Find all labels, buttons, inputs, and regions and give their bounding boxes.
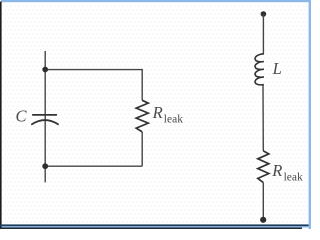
- svg-text:C: C: [16, 106, 28, 125]
- wire: left circuit, bottom horizontal: [45, 165, 142, 167]
- label R_leak (right): [271, 161, 303, 183]
- page frame: black left border: [0, 2, 2, 230]
- svg-text:leak: leak: [164, 113, 183, 125]
- wire: left circuit, right vertical lower segment: [141, 132, 143, 166]
- page frame: navy bottom rule: [0, 224, 309, 226]
- label R_leak (left): [152, 103, 184, 125]
- wire: left circuit, top horizontal: [45, 69, 142, 71]
- wire: left circuit, right vertical upper segment: [141, 69, 143, 101]
- node: top junction dot: [42, 67, 48, 73]
- page frame: blue top border: [1, 0, 311, 2]
- svg-text:R: R: [271, 161, 282, 180]
- node: right circuit bottom terminal: [260, 217, 266, 223]
- svg-text:L: L: [272, 59, 282, 78]
- wire: left circuit, left vertical lead: [44, 51, 46, 182]
- node: bottom junction dot: [42, 163, 48, 169]
- svg-text:leak: leak: [284, 171, 303, 183]
- wire: right circuit, middle segment: [262, 84, 264, 151]
- node: right circuit top terminal: [261, 11, 267, 17]
- wire: right circuit, upper lead: [262, 14, 264, 54]
- inductor L: [255, 54, 264, 85]
- svg-text:R: R: [152, 103, 163, 122]
- resistor R_leak (left): [136, 100, 148, 132]
- resistor R_leak (right): [258, 151, 269, 183]
- capacitor C: [32, 115, 58, 124]
- page frame: blue right border: [309, 0, 311, 229]
- wire: right circuit, lower lead: [262, 183, 264, 220]
